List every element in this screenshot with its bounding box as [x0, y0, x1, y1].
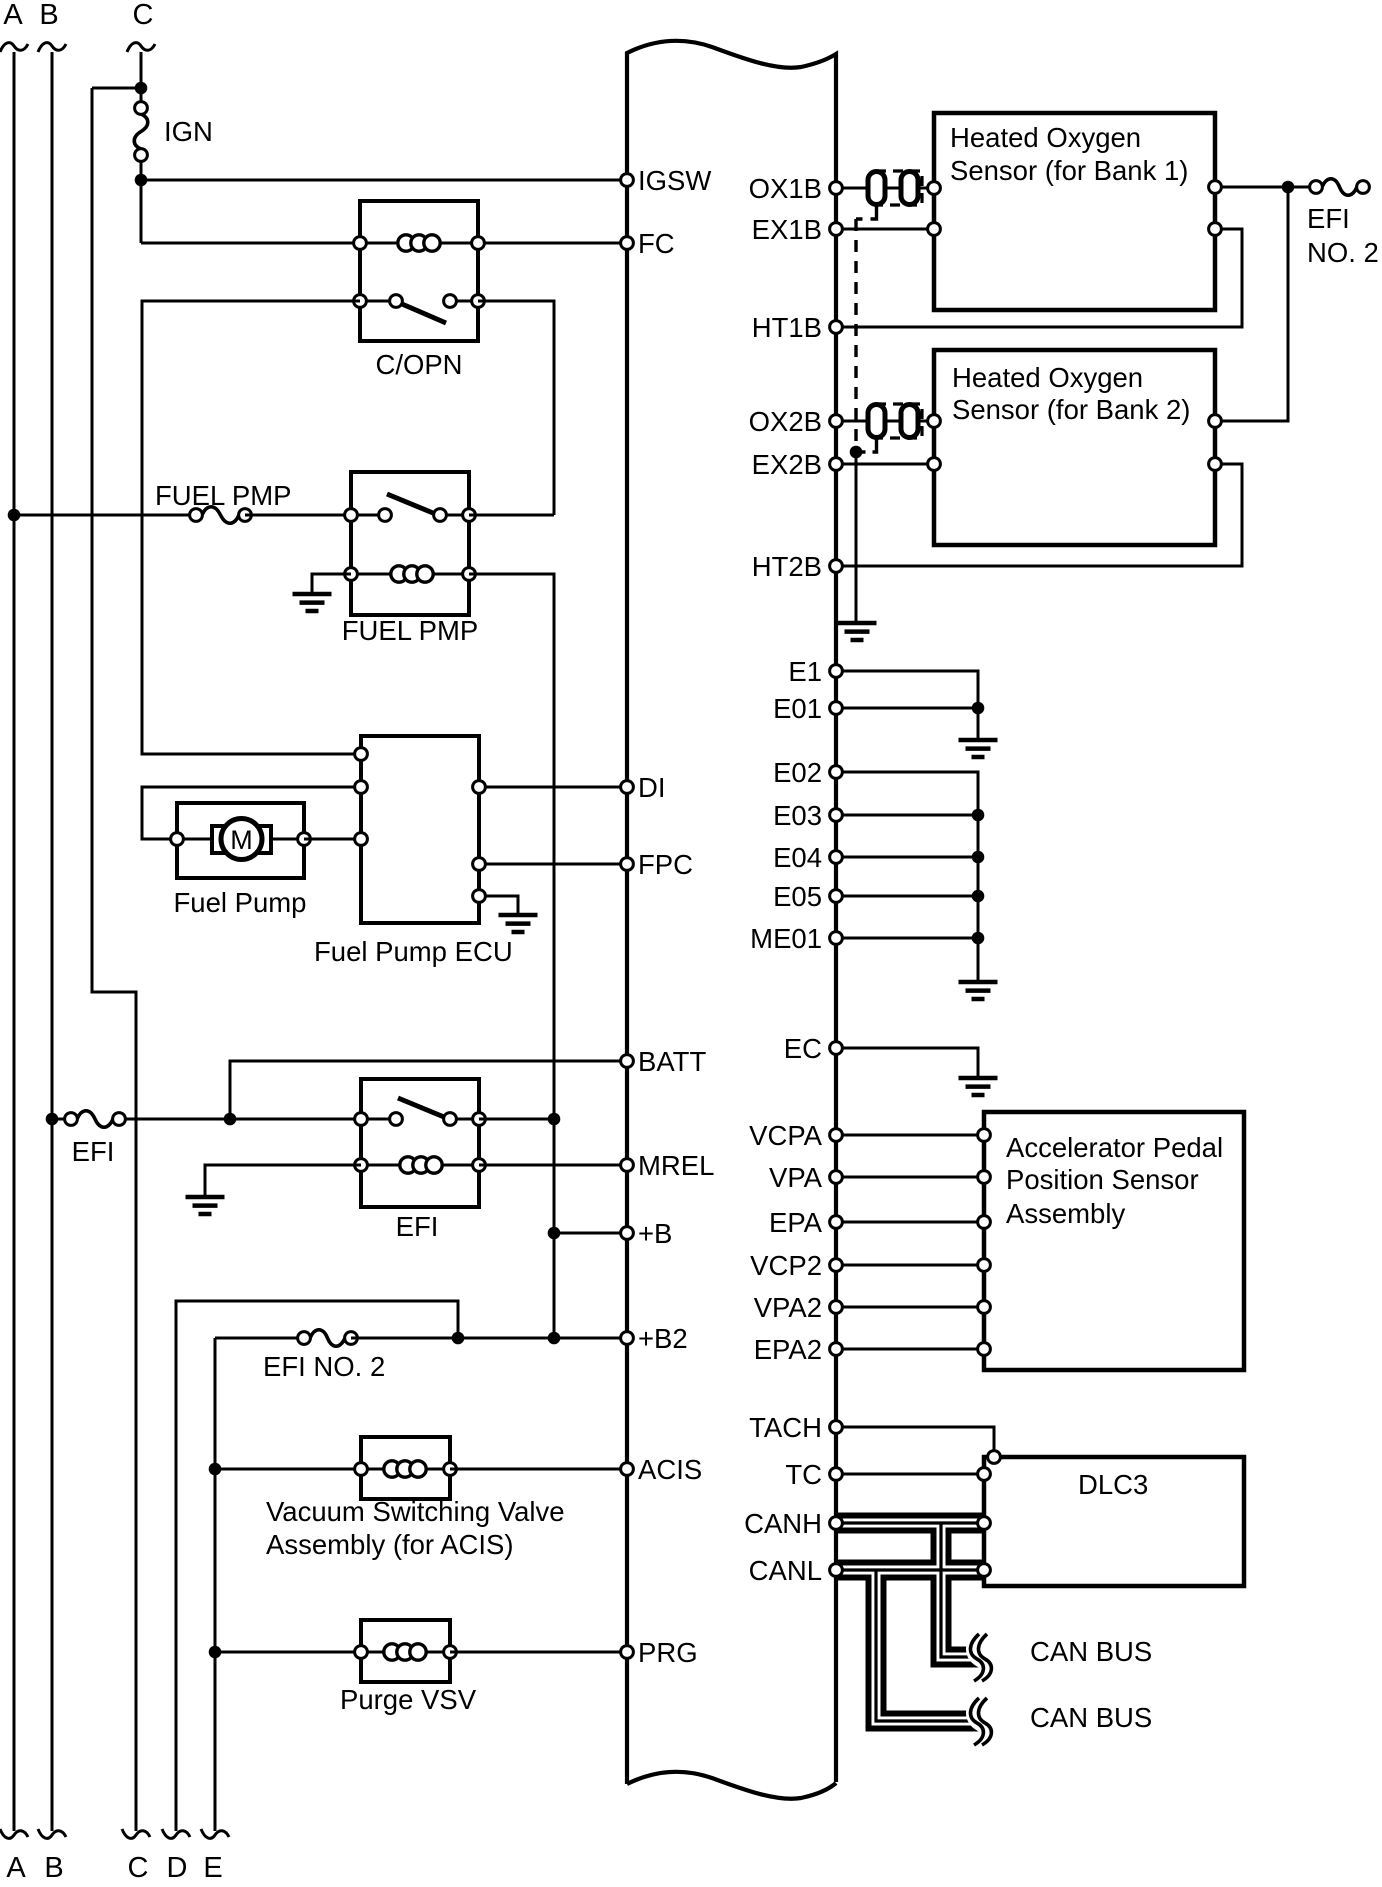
svg-text:NO. 2: NO. 2	[1307, 237, 1379, 268]
svg-text:CAN BUS: CAN BUS	[1030, 1636, 1152, 1667]
svg-text:EFI: EFI	[396, 1211, 439, 1242]
svg-text:Fuel Pump: Fuel Pump	[174, 887, 307, 918]
svg-text:E04: E04	[773, 842, 822, 873]
svg-text:EFI: EFI	[72, 1136, 115, 1167]
svg-text:A: A	[6, 1852, 26, 1884]
svg-text:C/OPN: C/OPN	[375, 349, 462, 380]
svg-text:Heated Oxygen: Heated Oxygen	[950, 122, 1141, 153]
svg-text:FC: FC	[638, 228, 675, 259]
svg-text:OX2B: OX2B	[749, 406, 822, 437]
svg-text:E1: E1	[788, 656, 822, 687]
svg-text:EC: EC	[784, 1033, 822, 1064]
svg-text:HT2B: HT2B	[752, 551, 822, 582]
svg-text:E01: E01	[773, 693, 822, 724]
svg-text:M: M	[230, 825, 253, 855]
svg-text:+B2: +B2	[638, 1323, 688, 1354]
svg-text:EFI NO. 2: EFI NO. 2	[263, 1351, 385, 1382]
svg-text:ACIS: ACIS	[638, 1454, 702, 1485]
svg-text:B: B	[44, 1852, 63, 1884]
svg-text:A: A	[3, 0, 23, 31]
svg-text:Assembly (for ACIS): Assembly (for ACIS)	[266, 1529, 514, 1560]
svg-text:TC: TC	[785, 1459, 822, 1490]
svg-text:Heated Oxygen: Heated Oxygen	[952, 362, 1143, 393]
svg-text:HT1B: HT1B	[752, 312, 822, 343]
svg-text:EPA: EPA	[769, 1207, 823, 1238]
svg-text:Vacuum Switching Valve: Vacuum Switching Valve	[266, 1496, 565, 1527]
svg-text:PRG: PRG	[638, 1637, 698, 1668]
svg-text:Position Sensor: Position Sensor	[1006, 1164, 1199, 1195]
svg-text:TACH: TACH	[749, 1412, 822, 1443]
svg-text:FPC: FPC	[638, 849, 693, 880]
svg-text:CANL: CANL	[749, 1555, 822, 1586]
svg-text:C: C	[133, 0, 154, 31]
svg-text:VCP2: VCP2	[750, 1250, 822, 1281]
svg-text:E02: E02	[773, 757, 822, 788]
svg-text:Sensor (for Bank 1): Sensor (for Bank 1)	[950, 155, 1188, 186]
svg-text:DI: DI	[638, 772, 666, 803]
svg-text:VPA2: VPA2	[754, 1292, 822, 1323]
svg-text:Purge VSV: Purge VSV	[340, 1684, 477, 1715]
svg-text:FUEL PMP: FUEL PMP	[342, 615, 479, 646]
svg-text:EX2B: EX2B	[752, 449, 822, 480]
svg-text:CANH: CANH	[744, 1508, 822, 1539]
svg-text:Accelerator Pedal: Accelerator Pedal	[1006, 1132, 1223, 1163]
svg-text:DLC3: DLC3	[1078, 1469, 1148, 1500]
svg-text:E05: E05	[773, 881, 822, 912]
svg-text:VPA: VPA	[769, 1162, 823, 1193]
svg-text:BATT: BATT	[638, 1046, 706, 1077]
svg-text:IGSW: IGSW	[638, 165, 711, 196]
svg-text:VCPA: VCPA	[749, 1120, 823, 1151]
svg-text:OX1B: OX1B	[749, 173, 822, 204]
svg-text:EX1B: EX1B	[752, 214, 822, 245]
svg-text:E: E	[203, 1852, 222, 1884]
svg-text:ME01: ME01	[750, 923, 822, 954]
svg-text:FUEL PMP: FUEL PMP	[155, 480, 292, 511]
svg-text:E03: E03	[773, 800, 822, 831]
svg-text:Fuel Pump ECU: Fuel Pump ECU	[314, 936, 513, 967]
svg-text:CAN BUS: CAN BUS	[1030, 1702, 1152, 1733]
svg-text:EFI: EFI	[1307, 203, 1350, 234]
svg-text:MREL: MREL	[638, 1150, 714, 1181]
svg-text:C: C	[128, 1852, 149, 1884]
svg-text:IGN: IGN	[164, 116, 213, 147]
svg-text:Assembly: Assembly	[1006, 1198, 1125, 1229]
svg-text:B: B	[39, 0, 58, 31]
svg-text:EPA2: EPA2	[754, 1334, 822, 1365]
svg-text:+B: +B	[638, 1218, 672, 1249]
svg-text:Sensor (for Bank 2): Sensor (for Bank 2)	[952, 394, 1190, 425]
svg-text:D: D	[167, 1852, 188, 1884]
